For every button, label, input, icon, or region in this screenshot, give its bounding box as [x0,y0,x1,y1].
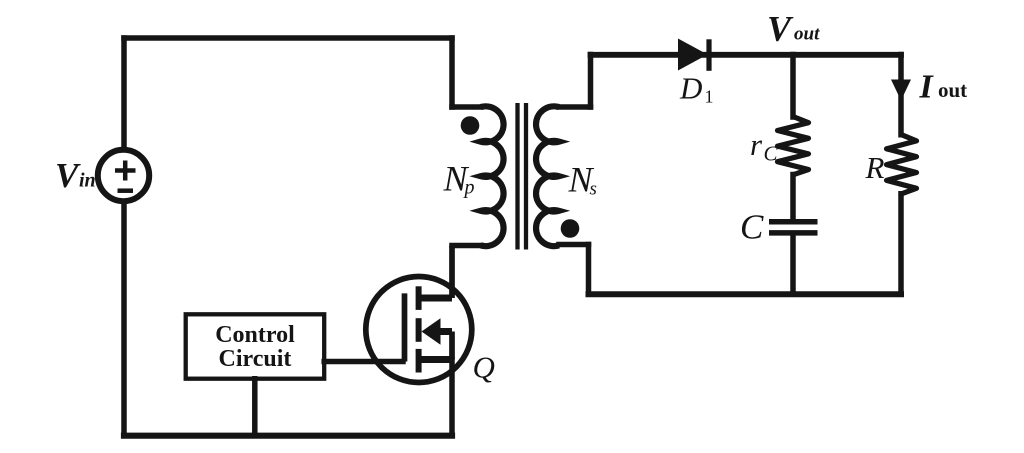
svg-text:out: out [794,23,820,44]
source bar [419,356,452,363]
wire: primary bottom stub [452,243,481,249]
wire: left rail upper (Vin top to top rail) [121,38,127,148]
wire: left rail lower (Vin bottom to bottom rail) [121,203,127,436]
resistor rC [778,117,809,175]
gate bar [402,293,408,361]
svg-text:D: D [679,70,702,105]
wire: top rail [124,35,452,41]
svg-text:out: out [938,78,967,102]
minus sign [118,188,134,193]
svg-text:s: s [590,179,597,200]
svg-text:C: C [740,208,764,247]
MOSFET Q [366,246,472,383]
capacitor C [769,222,818,233]
wire: bottom rail [124,433,452,439]
transformer secondary winding Ns [536,106,559,246]
MOSFET body circle [366,277,472,383]
diode anode triangle [678,39,708,71]
wire: output top rail [591,52,902,58]
channel segment bottom [416,349,422,373]
label Iout [919,69,968,106]
transformer primary winding Np [481,106,504,246]
svg-text:r: r [750,127,763,162]
wire: drain lead up to primary [449,246,455,299]
wire: control circuit bottom to bottom rail [252,379,258,436]
svg-text:R: R [865,150,885,185]
current arrow Iout [891,80,911,101]
polarity dot primary [461,116,480,135]
svg-text:Control: Control [215,322,295,348]
wire: right branch lower (R to bottom rail) [898,194,904,294]
label Vin [55,156,96,195]
svg-text:Circuit: Circuit [219,346,292,372]
wire: middle branch lower (capacitor C to bottom rail) [790,236,796,295]
wire: middle branch between rC and capacitor C [790,175,796,220]
body connection bar [438,328,452,335]
label Control Circuit [215,322,295,372]
control circuit box [186,314,325,378]
wire: output bottom rail [589,291,902,297]
svg-text:C: C [764,141,779,165]
svg-text:I: I [919,69,935,106]
wire: secondary bottom stub [559,242,589,248]
wire: vertical from top rail down to primary winding top [449,38,455,107]
body-to-source vertical [449,332,455,360]
label Ns [568,159,597,199]
label rC [750,127,779,165]
svg-text:in: in [79,170,96,192]
wire: middle branch upper (top rail to rC) [790,55,796,118]
wire: secondary top stub [559,104,591,110]
wire: source vertical (MOSFET to bottom rail) [449,360,455,436]
wire: right branch upper (top rail corner down to R) [898,55,904,135]
svg-text:Q: Q [473,350,495,385]
svg-text:V: V [55,156,81,195]
source circle [98,150,149,201]
voltage source Vin [98,150,149,201]
diode D1 [678,39,709,71]
svg-text:p: p [463,177,475,199]
diode cathode bar [706,39,711,71]
transformer core lines [518,103,527,250]
label Np [443,159,475,199]
wire: primary top stub [452,104,481,110]
svg-text:1: 1 [705,87,714,107]
plus sign [115,168,136,173]
body arrow [422,318,441,344]
wire: secondary vertical up to output top rail [588,55,594,108]
label D1 [679,70,714,106]
polarity dot secondary [561,219,580,238]
resistor R [887,135,917,194]
wire: secondary bottom vertical to output bottom rail [586,245,592,295]
label Vout [767,9,820,49]
wire: gate wire from control circuit to MOSFET gate [324,359,403,365]
drain bar [419,295,452,302]
channel segment top [416,286,422,310]
svg-text:V: V [767,9,794,49]
channel segment middle [416,318,422,342]
